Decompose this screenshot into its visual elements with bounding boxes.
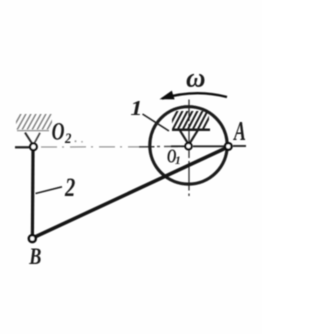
pin joint O1 <box>185 143 191 149</box>
pin joint B <box>29 235 36 242</box>
ground hatching at O1 <box>168 110 213 129</box>
link 2 (rocker O2-B) <box>31 150 35 236</box>
crank wheel 1 (disk) <box>150 107 227 184</box>
ground baseline at O1 <box>172 129 210 132</box>
svg-text:2: 2 <box>64 130 72 146</box>
fixed pivot triangle at O1 <box>180 131 188 143</box>
connecting rod B-A <box>33 147 227 237</box>
ground baseline at O2 <box>17 130 49 132</box>
svg-text:O: O <box>52 116 65 145</box>
wire: horizontal axis inside wheel (left of O1) <box>157 145 184 147</box>
ground hatching at O2 (faint) <box>12 112 57 130</box>
svg-text:ω: ω <box>186 63 206 93</box>
omega arrowhead <box>160 91 175 100</box>
wire: horizontal axis dash right of A <box>233 145 246 147</box>
svg-text:1: 1 <box>175 155 181 167</box>
svg-text:1: 1 <box>130 96 142 119</box>
pin joint A <box>225 143 232 150</box>
wire: vertical dash-dot axis through O1 <box>188 100 190 197</box>
label O2 (faint) <box>52 116 83 146</box>
label 1 leader line <box>143 114 170 131</box>
svg-text:B: B <box>28 245 41 269</box>
wire: horizontal axis dark dash left of O1 pin <box>171 145 185 147</box>
wire: horizontal axis dash crossing wheel left rim <box>139 146 155 148</box>
omega rotation arrow arc <box>162 93 227 98</box>
wire: horizontal dash-dot axis left segment at O2 <box>15 146 29 148</box>
pin joint O2 <box>30 143 37 150</box>
svg-text:2: 2 <box>64 174 75 203</box>
svg-text:A: A <box>232 116 245 146</box>
fixed pivot triangle at O2 <box>25 133 33 145</box>
wire: horizontal dash-dot axis from O2 to wheel <box>41 146 152 148</box>
label 2 leader line <box>36 187 63 194</box>
wire: horizontal axis from O1 to A <box>193 145 224 147</box>
